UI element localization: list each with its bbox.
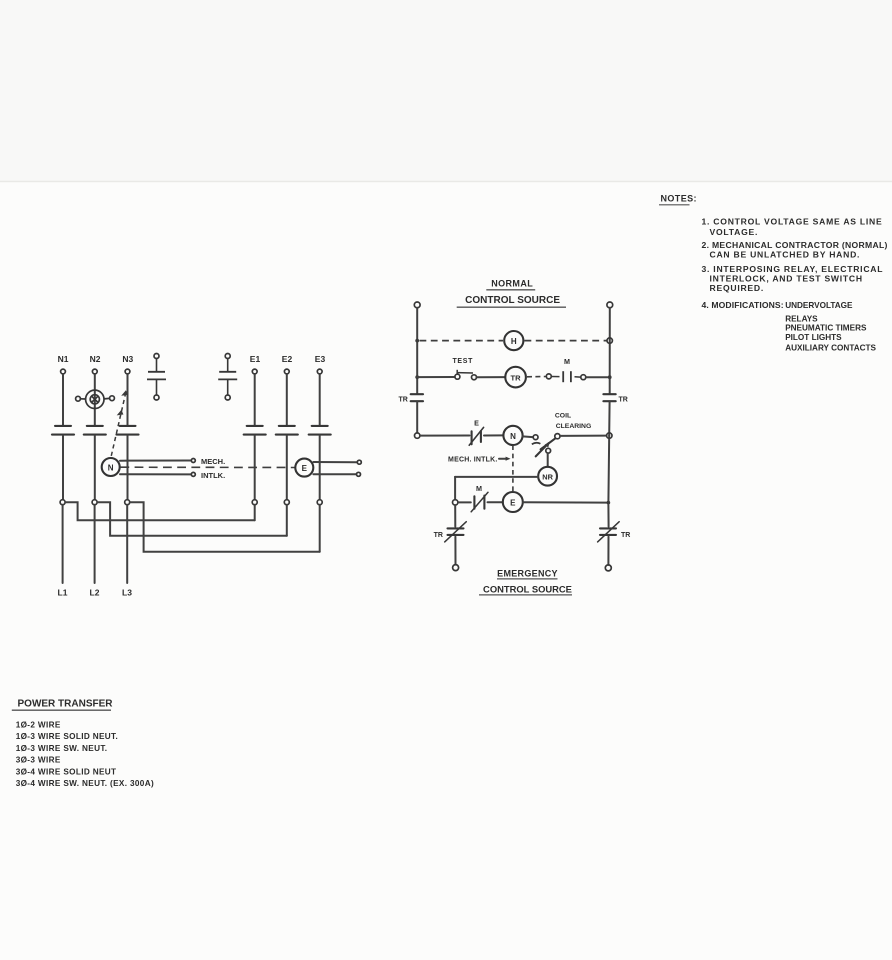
wire right rail lower	[608, 402, 610, 436]
terminal E link lower	[357, 472, 361, 476]
blade coil clearing	[541, 438, 556, 449]
wire rung1 dashed right	[525, 340, 607, 342]
contact M (NC interlock)	[471, 492, 488, 512]
wire mech link upper	[120, 460, 191, 462]
terminal rung4 left	[453, 500, 458, 505]
wire rung2 left	[417, 376, 455, 378]
terminal N2	[92, 369, 97, 374]
coil clearing stationary squiggle	[532, 443, 541, 444]
svg-text:1Ø-3 WIRE SOLID NEUT.: 1Ø-3 WIRE SOLID NEUT.	[16, 732, 118, 741]
svg-text:E1: E1	[250, 354, 261, 364]
wire N1 lower to load	[62, 436, 64, 500]
wire L2 drop	[94, 505, 96, 583]
contact N2	[84, 426, 106, 435]
wire right rail upper	[609, 308, 611, 394]
svg-text:MECH. INTLK.: MECH. INTLK.	[448, 456, 497, 463]
node junction E2	[284, 500, 289, 505]
node junction E3	[317, 500, 322, 505]
svg-text:NOTES:: NOTES:	[661, 194, 697, 204]
svg-text:TR: TR	[621, 532, 630, 539]
contact E3	[309, 426, 331, 435]
svg-text:N2: N2	[90, 354, 101, 364]
wire E link upper	[313, 461, 356, 463]
mechanical linkage dashed to N coil	[111, 393, 126, 457]
terminal N1	[61, 369, 66, 374]
auxiliary contact A2	[218, 354, 237, 401]
svg-text:CONTROL SOURCE: CONTROL SOURCE	[465, 295, 560, 306]
coil H	[504, 331, 523, 350]
svg-text:E: E	[474, 418, 479, 427]
wire rung4 left	[458, 501, 471, 503]
svg-text:E: E	[510, 499, 516, 508]
svg-text:1Ø-3 WIRE SW. NEUT.: 1Ø-3 WIRE SW. NEUT.	[16, 744, 108, 753]
terminal emergency right	[605, 565, 611, 571]
rung 1: dashed with coil H	[415, 339, 419, 343]
svg-text:L2: L2	[90, 588, 100, 598]
wire E2 vertical upper	[286, 374, 288, 425]
svg-text:CONTROL SOURCE: CONTROL SOURCE	[483, 583, 572, 594]
terminal below blade	[546, 448, 551, 453]
svg-text:H: H	[511, 337, 517, 346]
node junction N1	[60, 500, 65, 505]
svg-text:M: M	[564, 357, 570, 366]
svg-text:3Ø-4 WIRE SOLID NEUT: 3Ø-4 WIRE SOLID NEUT	[16, 767, 117, 776]
coil E (transfer mechanism)	[295, 459, 313, 477]
linkage arrowhead lower	[117, 410, 124, 416]
contact E2	[276, 426, 298, 435]
contact TR left rail (timed NO)	[411, 394, 423, 401]
wire contact to E coil	[488, 501, 503, 503]
node junction N3	[125, 500, 130, 505]
svg-text:N: N	[108, 464, 114, 473]
terminal mech upper	[191, 459, 195, 463]
contact N3	[117, 426, 139, 435]
scan seam	[0, 181, 892, 183]
svg-text:AUXILIARY CONTACTS: AUXILIARY CONTACTS	[785, 343, 876, 352]
svg-text:TR: TR	[619, 397, 628, 404]
terminal mech lower	[191, 472, 195, 476]
svg-text:MECH.: MECH.	[201, 457, 225, 466]
node junction N2	[92, 500, 97, 505]
wire dashed N to E coil (mech interlock)	[512, 445, 514, 491]
left branch lower with TR timed NC	[454, 505, 456, 526]
wire N3 vertical upper	[127, 374, 129, 425]
svg-text:NR: NR	[542, 473, 553, 482]
switch TEST	[455, 370, 477, 380]
contact E1	[244, 426, 266, 435]
svg-text:CAN BE UNLATCHED BY HAND.: CAN BE UNLATCHED BY HAND.	[710, 250, 861, 260]
coil NR	[538, 467, 557, 486]
terminal E3	[317, 369, 322, 374]
terminal E link upper	[357, 460, 361, 464]
coil N (transfer mechanism)	[102, 458, 120, 476]
wire E2 lower	[286, 436, 288, 500]
contact E (NC interlock)	[469, 427, 483, 445]
title EMERGENCY CONTROL SOURCE	[479, 569, 572, 595]
node rung4 right	[606, 501, 610, 505]
svg-text:NORMAL: NORMAL	[491, 279, 533, 289]
wire mech link lower	[120, 473, 191, 475]
wire rung4 right	[523, 501, 606, 503]
wire rung3 left	[420, 435, 470, 437]
wire to emergency terminal right	[607, 537, 609, 565]
contact M (aux) with terminals	[546, 371, 586, 382]
svg-text:4. MODIFICATIONS:: 4. MODIFICATIONS:	[702, 300, 784, 310]
svg-text:E: E	[302, 464, 308, 473]
coil TR	[505, 367, 526, 388]
wire E3 tail	[319, 505, 321, 552]
svg-text:N1: N1	[58, 354, 69, 364]
svg-text:E3: E3	[315, 354, 326, 364]
wire N2 lower	[94, 436, 96, 500]
node rung1 right	[607, 338, 612, 343]
coil E (relay)	[503, 492, 523, 512]
wire E1 lower	[254, 436, 256, 500]
svg-text:VOLTAGE.: VOLTAGE.	[710, 227, 759, 237]
node rung3 right	[607, 433, 612, 438]
svg-text:TR: TR	[511, 373, 522, 382]
wire NR drop	[547, 453, 549, 467]
title NORMAL CONTROL SOURCE	[457, 279, 566, 308]
svg-text:POWER TRANSFER: POWER TRANSFER	[18, 699, 114, 710]
svg-text:INTLK.: INTLK.	[201, 471, 225, 480]
top scan band	[0, 0, 892, 181]
svg-text:PILOT LIGHTS: PILOT LIGHTS	[785, 333, 842, 342]
wire dashed N-E mechanical interlock	[120, 466, 295, 468]
wire contact to N coil	[484, 434, 503, 436]
terminal E1	[252, 369, 257, 374]
coil N (relay)	[503, 426, 522, 445]
wire L3 drop	[126, 505, 128, 583]
svg-text:L1: L1	[58, 588, 68, 598]
operator arrow coil clearing	[536, 443, 549, 456]
auxiliary contact A1	[147, 354, 166, 401]
wire left rail	[416, 308, 418, 394]
wire NR to left branch	[455, 476, 538, 478]
wire to emergency terminal left	[454, 537, 456, 565]
svg-text:E2: E2	[282, 354, 293, 364]
terminal E2	[284, 369, 289, 374]
wire left rail lower	[416, 402, 418, 433]
svg-text:3Ø-4 WIRE SW. NEUT. (EX. 300A): 3Ø-4 WIRE SW. NEUT. (EX. 300A)	[16, 779, 154, 788]
terminal N3	[125, 369, 130, 374]
svg-text:3Ø-3 WIRE: 3Ø-3 WIRE	[16, 756, 61, 765]
svg-text:TEST: TEST	[452, 358, 473, 365]
terminal rung3 left	[415, 433, 420, 438]
wire E2 tail	[286, 505, 288, 536]
wire right rail to rung4	[607, 436, 610, 503]
wire rung2 right	[586, 376, 608, 378]
wire test to TR coil	[477, 376, 505, 378]
rung 2	[415, 375, 419, 379]
contact TR right rail (timed NO)	[603, 394, 615, 401]
wire dashed TR to contact W	[527, 376, 546, 378]
svg-text:COIL: COIL	[555, 413, 571, 420]
svg-text:M: M	[476, 484, 482, 493]
contact N1 (transfer switch pole)	[52, 426, 74, 435]
motor operator on N2	[76, 390, 115, 408]
wire left branch vertical	[454, 477, 456, 500]
svg-text:1. CONTROL VOLTAGE SAME AS LIN: 1. CONTROL VOLTAGE SAME AS LINE	[702, 216, 883, 226]
wire N2 vertical upper	[94, 374, 96, 425]
svg-text:L3: L3	[122, 588, 132, 598]
wire E link lower	[313, 473, 356, 475]
svg-text:EMERGENCY: EMERGENCY	[497, 569, 558, 579]
terminal left rail top	[414, 302, 420, 308]
terminal emergency left	[453, 565, 459, 571]
wire E1 vertical upper	[254, 374, 256, 425]
svg-text:1Ø-2 WIRE: 1Ø-2 WIRE	[16, 720, 61, 729]
right branch lower with TR timed NC	[607, 505, 609, 527]
wire N3 to E3 crossover	[130, 502, 320, 552]
node rung2 right	[608, 375, 612, 379]
svg-text:TR: TR	[434, 532, 443, 539]
wire E3 lower	[319, 436, 321, 500]
node junction E1	[252, 500, 257, 505]
wire N3 lower	[127, 436, 129, 500]
switch COIL CLEARING pivot	[555, 434, 560, 439]
terminal after N coil	[523, 435, 533, 438]
svg-text:CLEARING: CLEARING	[556, 423, 592, 430]
svg-text:PNEUMATIC TIMERS: PNEUMATIC TIMERS	[785, 324, 867, 333]
svg-text:UNDERVOLTAGE: UNDERVOLTAGE	[785, 301, 853, 310]
terminal right rail top	[607, 302, 613, 308]
wire N1 vertical upper	[62, 374, 64, 425]
wire E1 tail	[254, 505, 256, 520]
svg-text:N3: N3	[122, 354, 133, 364]
wire L1 drop	[62, 505, 64, 583]
wire E3 vertical upper	[319, 374, 321, 425]
svg-text:REQUIRED.: REQUIRED.	[710, 283, 765, 293]
svg-text:N: N	[510, 432, 516, 441]
linkage arrowhead upper	[121, 390, 128, 396]
wire pivot to right rail	[560, 435, 607, 437]
wire N2 to E2 crossover	[97, 502, 286, 536]
svg-text:TR: TR	[399, 397, 408, 404]
svg-text:RELAYS: RELAYS	[785, 314, 818, 323]
wire N1 to E1 crossover	[65, 502, 254, 520]
